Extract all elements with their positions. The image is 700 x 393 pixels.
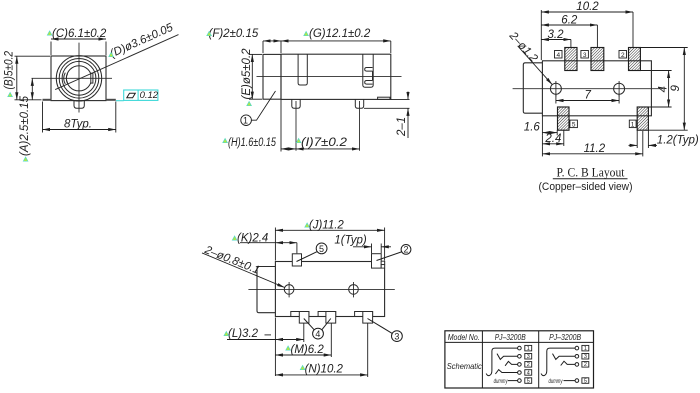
svg-text:3: 3 [583, 52, 587, 59]
svg-text:(C)6.1±0.2: (C)6.1±0.2 [52, 28, 107, 40]
svg-text:(I)7±0.2: (I)7±0.2 [301, 137, 348, 149]
svg-text:3.2: 3.2 [548, 29, 565, 41]
svg-text:4: 4 [658, 86, 670, 92]
svg-text:6.2: 6.2 [561, 14, 578, 26]
svg-text:(E)ø5±0.2: (E)ø5±0.2 [241, 48, 253, 100]
svg-text:9: 9 [670, 85, 682, 92]
svg-text:(Copper–sided view): (Copper–sided view) [539, 181, 633, 193]
svg-text:(B)5±0.2: (B)5±0.2 [4, 50, 16, 89]
svg-text:2: 2 [621, 52, 625, 59]
svg-text:P. C. B Layout: P. C. B Layout [557, 165, 625, 179]
svg-text:5: 5 [527, 378, 530, 384]
svg-text:4: 4 [315, 329, 320, 339]
svg-text:8Typ.: 8Typ. [64, 119, 92, 131]
svg-text:Model No.: Model No. [448, 332, 480, 342]
svg-text:(A)2.5±0.15: (A)2.5±0.15 [19, 95, 31, 156]
svg-text:PJ–3200B: PJ–3200B [495, 332, 526, 342]
svg-text:10.2: 10.2 [576, 1, 599, 13]
svg-text:(K)2.4: (K)2.4 [237, 233, 268, 245]
svg-text:2: 2 [404, 245, 409, 255]
svg-text:4: 4 [527, 370, 530, 376]
svg-text:dummy: dummy [494, 378, 508, 385]
svg-text:2: 2 [527, 362, 530, 368]
svg-text:1.2(Typ): 1.2(Typ) [657, 135, 699, 147]
svg-text:2–ø0.8±0.1: 2–ø0.8±0.1 [202, 244, 261, 277]
svg-text:2–ø1.2: 2–ø1.2 [506, 29, 540, 65]
svg-text:1: 1 [243, 116, 248, 126]
svg-text:11.2: 11.2 [584, 143, 606, 155]
svg-text:(M)6.2: (M)6.2 [291, 344, 325, 356]
svg-text:1: 1 [527, 346, 530, 352]
svg-text:0.12: 0.12 [140, 90, 159, 101]
svg-text:3: 3 [394, 332, 399, 342]
svg-text:(N)10.2: (N)10.2 [305, 364, 344, 376]
svg-text:(G)12.1±0.2: (G)12.1±0.2 [309, 28, 371, 40]
svg-text:3: 3 [584, 354, 587, 360]
svg-text:2: 2 [584, 362, 587, 368]
svg-text:7: 7 [585, 89, 592, 101]
svg-text:1: 1 [584, 346, 587, 352]
svg-text:dummy: dummy [549, 378, 563, 385]
svg-text:(J)11.2: (J)11.2 [309, 220, 345, 232]
svg-text:5: 5 [572, 121, 576, 128]
svg-text:2–1: 2–1 [396, 117, 408, 137]
svg-text:2.4: 2.4 [544, 133, 561, 145]
svg-text:(L)3.2: (L)3.2 [228, 328, 259, 340]
svg-text:5: 5 [319, 244, 324, 254]
svg-text:1: 1 [631, 121, 635, 128]
svg-text:(H)1.6±0.15: (H)1.6±0.15 [228, 137, 276, 149]
svg-text:1.6: 1.6 [524, 122, 541, 134]
svg-text:1(Typ): 1(Typ) [334, 235, 367, 247]
svg-text:3: 3 [527, 354, 530, 360]
svg-text:PJ–3200B: PJ–3200B [549, 332, 581, 342]
svg-text:5: 5 [584, 378, 587, 384]
svg-text:4: 4 [557, 52, 561, 59]
svg-text:(F)2±0.15: (F)2±0.15 [209, 28, 259, 40]
svg-text:Schematic: Schematic [447, 361, 483, 371]
